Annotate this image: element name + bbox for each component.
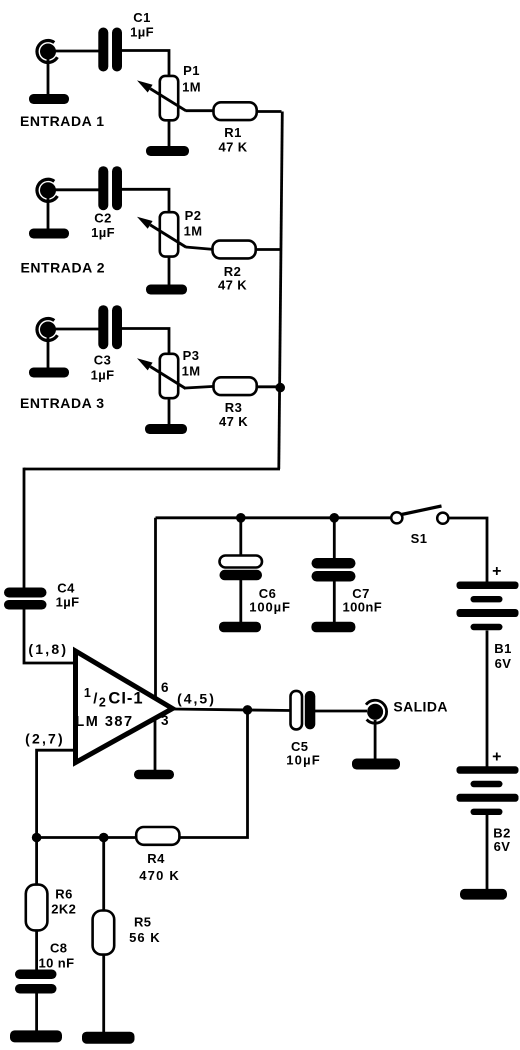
- switch S1: [391, 506, 448, 546]
- svg-text:C4: C4: [57, 581, 75, 596]
- junction feedback node: [32, 833, 42, 843]
- wire J3 to ground: [47, 337, 50, 369]
- junction rail and C7: [330, 513, 340, 523]
- svg-text:100µF: 100µF: [249, 600, 291, 615]
- output jack SALIDA: [366, 700, 387, 723]
- wire rail to C7: [333, 518, 336, 559]
- resistor R6: [26, 885, 77, 931]
- capacitor C2: [91, 166, 122, 240]
- svg-text:100nF: 100nF: [343, 600, 383, 615]
- svg-text:1µF: 1µF: [91, 225, 115, 240]
- svg-text:1: 1: [84, 686, 91, 700]
- ground below P2: [146, 285, 187, 295]
- svg-text:2K2: 2K2: [51, 902, 76, 917]
- resistor R3: [214, 377, 257, 429]
- wire output jack to ground: [374, 720, 377, 760]
- svg-text:470 K: 470 K: [139, 868, 180, 883]
- svg-text:C1: C1: [133, 10, 150, 25]
- svg-text:ENTRADA 3: ENTRADA 3: [20, 395, 105, 411]
- ground below C6: [219, 622, 261, 632]
- potentiometer P2: [137, 208, 202, 257]
- svg-text:1µF: 1µF: [91, 368, 115, 383]
- resistor R4: [136, 827, 180, 883]
- junction at R3 and bus: [275, 383, 285, 393]
- wire C8 to ground: [35, 993, 38, 1031]
- wire rail to C6: [239, 518, 242, 556]
- svg-text:R1: R1: [224, 125, 241, 140]
- svg-text:1µF: 1µF: [56, 595, 80, 610]
- svg-text:(2,7): (2,7): [25, 731, 65, 747]
- wire R2 to bus: [255, 248, 281, 251]
- wire C5 to output jack: [315, 710, 367, 713]
- wire C7 to ground: [333, 582, 336, 623]
- supply rail left segment: [156, 516, 392, 519]
- supply rail right segment to battery: [449, 518, 487, 582]
- svg-text:1M: 1M: [182, 80, 201, 95]
- capacitor C3: [91, 305, 122, 382]
- svg-text:R3: R3: [225, 400, 242, 415]
- battery B2: [457, 766, 519, 854]
- svg-text:47 K: 47 K: [218, 278, 247, 293]
- svg-text:1M: 1M: [184, 224, 203, 239]
- wire pin (2,7) to feedback node: [37, 750, 75, 838]
- wire P2 to ground: [168, 256, 171, 285]
- potentiometer P3: [137, 348, 200, 398]
- wire C4 to op-amp pin (1,8): [24, 610, 76, 664]
- ground below B2: [460, 889, 507, 900]
- ground below J3: [29, 368, 69, 378]
- junction output node: [243, 705, 253, 715]
- svg-text:LM 387: LM 387: [75, 714, 133, 730]
- svg-text:47 K: 47 K: [218, 140, 247, 155]
- wire P1 to ground: [168, 120, 171, 148]
- input jack J2: [37, 179, 57, 201]
- wire P2 wiper to R2: [186, 247, 214, 249]
- svg-text:47 K: 47 K: [219, 414, 248, 429]
- wire pin 6 to supply rail: [154, 518, 157, 697]
- svg-text:R4: R4: [147, 851, 165, 866]
- resistor R2: [213, 241, 256, 293]
- svg-text:/: /: [93, 691, 98, 708]
- svg-text:6V: 6V: [495, 656, 512, 671]
- op-amp U1 LM387 triangle: [75, 651, 172, 763]
- svg-text:+: +: [492, 749, 502, 766]
- ground below J1: [29, 94, 69, 104]
- ground below pin 3: [134, 770, 174, 780]
- wire mixing bus vertical: [279, 112, 283, 470]
- svg-text:(1,8): (1,8): [28, 641, 68, 657]
- wire bus to C4 horizontal: [24, 468, 280, 471]
- svg-text:S1: S1: [411, 531, 428, 546]
- wire R5 to ground: [102, 955, 105, 1033]
- svg-text:ENTRADA 1: ENTRADA 1: [20, 113, 105, 129]
- wire R6 to C8: [35, 930, 38, 970]
- ground below output jack: [352, 759, 400, 770]
- potentiometer P1: [137, 63, 201, 120]
- wire C6 to ground: [239, 580, 242, 623]
- wire P1 wiper to R1: [186, 109, 215, 112]
- wire P3 wiper to R3: [186, 386, 215, 388]
- wire R5 node to R5: [102, 838, 105, 912]
- ground below C7: [311, 622, 355, 632]
- junction rail and C6: [236, 513, 246, 523]
- svg-text:CI-1: CI-1: [108, 690, 143, 708]
- wire J2 to ground: [47, 198, 50, 230]
- svg-text:R5: R5: [134, 915, 151, 930]
- wire J1 to C1: [55, 50, 99, 53]
- svg-text:SALIDA: SALIDA: [393, 699, 448, 715]
- ground below P1: [146, 146, 189, 156]
- capacitor C6: [220, 556, 291, 615]
- wire R3 to bus: [256, 385, 281, 388]
- wire C2 to P2: [121, 189, 169, 213]
- svg-text:2: 2: [99, 696, 106, 710]
- wire op-amp output: [171, 709, 291, 711]
- svg-text:1M: 1M: [182, 364, 201, 379]
- wire R1 to bus: [256, 110, 282, 113]
- svg-text:C2: C2: [94, 211, 111, 226]
- capacitor C5: [286, 691, 321, 768]
- svg-text:+: +: [492, 563, 502, 580]
- wire J2 to C2: [55, 188, 99, 191]
- wire J1 to ground: [47, 59, 50, 95]
- svg-text:56 K: 56 K: [129, 930, 160, 945]
- wire C3 to P3: [121, 329, 169, 355]
- wire J3 to C3: [55, 328, 99, 331]
- wire R4 to feedback node: [37, 836, 137, 839]
- wire output node down to R4: [180, 710, 248, 838]
- ground below R5: [82, 1032, 135, 1044]
- wire pin 3 to ground: [154, 718, 157, 771]
- capacitor C8: [15, 941, 74, 994]
- svg-text:(4,5): (4,5): [177, 691, 216, 707]
- svg-text:3: 3: [161, 713, 169, 728]
- wire down to C4: [23, 468, 26, 588]
- junction R5 node: [99, 833, 109, 843]
- svg-text:10µF: 10µF: [286, 753, 321, 768]
- wire B1 to B2: [486, 631, 489, 768]
- battery B1: [457, 582, 519, 672]
- ground below P3: [145, 424, 187, 434]
- svg-text:C3: C3: [94, 353, 111, 368]
- capacitor C1: [98, 10, 154, 72]
- input jack J1: [37, 41, 57, 63]
- resistor R1: [214, 102, 257, 154]
- wire B2 to ground: [486, 815, 489, 891]
- capacitor C4: [4, 581, 79, 610]
- resistor R5: [93, 911, 161, 955]
- svg-text:B1: B1: [494, 641, 511, 656]
- wire P3 to ground: [168, 398, 171, 426]
- ground below J2: [29, 229, 69, 239]
- svg-text:C8: C8: [50, 941, 67, 956]
- svg-text:ENTRADA 2: ENTRADA 2: [21, 260, 106, 276]
- capacitor C7: [312, 558, 383, 615]
- svg-text:6V: 6V: [494, 839, 511, 854]
- svg-text:R6: R6: [55, 887, 72, 902]
- svg-text:10 nF: 10 nF: [39, 956, 75, 971]
- svg-text:P3: P3: [183, 348, 200, 363]
- wire feedback node to R6: [35, 838, 38, 886]
- svg-text:1µF: 1µF: [130, 25, 154, 40]
- input jack J3: [37, 319, 57, 341]
- svg-text:6: 6: [161, 680, 169, 695]
- svg-text:P2: P2: [185, 208, 202, 223]
- svg-text:P1: P1: [183, 63, 200, 78]
- ground below C8: [10, 1030, 62, 1042]
- wire C1 to P1: [121, 51, 169, 77]
